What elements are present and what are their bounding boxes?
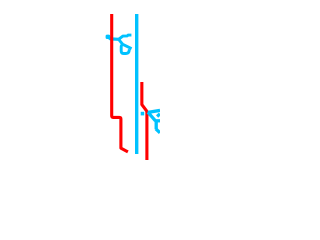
- cyan V2 exit diagonal to east edge: [156, 129, 160, 133]
- cyan square marker west of red line 2: [141, 112, 145, 116]
- red route line 2 (right): starts y=82, kink at y=105, to bottom edge: [142, 82, 147, 160]
- red route line 1 (left): vertical, jog right, descend, diagonal end: [112, 14, 128, 152]
- cyan V2 south arm: [155, 121, 158, 130]
- cyan branch west terminus blob: [106, 35, 111, 39]
- cyan trunk line: vertical from y=14 to y=154: [135, 14, 138, 154]
- cyan southeast junction V1: arm to east edge: [148, 110, 160, 112]
- cyan stub at east edge: [157, 114, 160, 117]
- cyan branch: west stub crossing under red line: [108, 37, 119, 39]
- cyan teardrop loop below branch B: [121, 44, 129, 53]
- cyan branch A: fork rising east: [119, 35, 132, 39]
- cyan V2 east arm: [155, 119, 160, 122]
- cyan southeast diagonal V1 to V2: [148, 112, 156, 121]
- cyan branch B: fork descending, gentle diagonal to pointed east end: [119, 39, 132, 48]
